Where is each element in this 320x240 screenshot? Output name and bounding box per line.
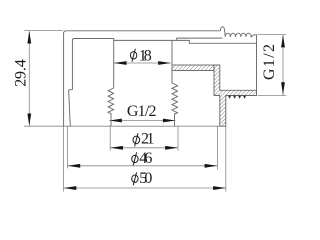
svg-text:29.4: 29.4 [13, 59, 30, 87]
svg-text:46: 46 [139, 150, 152, 167]
svg-text:G1/2: G1/2 [261, 44, 278, 80]
svg-text:21: 21 [141, 130, 155, 147]
svg-text:G1/2: G1/2 [127, 103, 157, 120]
svg-text:18: 18 [139, 47, 152, 64]
svg-text:50: 50 [139, 170, 152, 187]
